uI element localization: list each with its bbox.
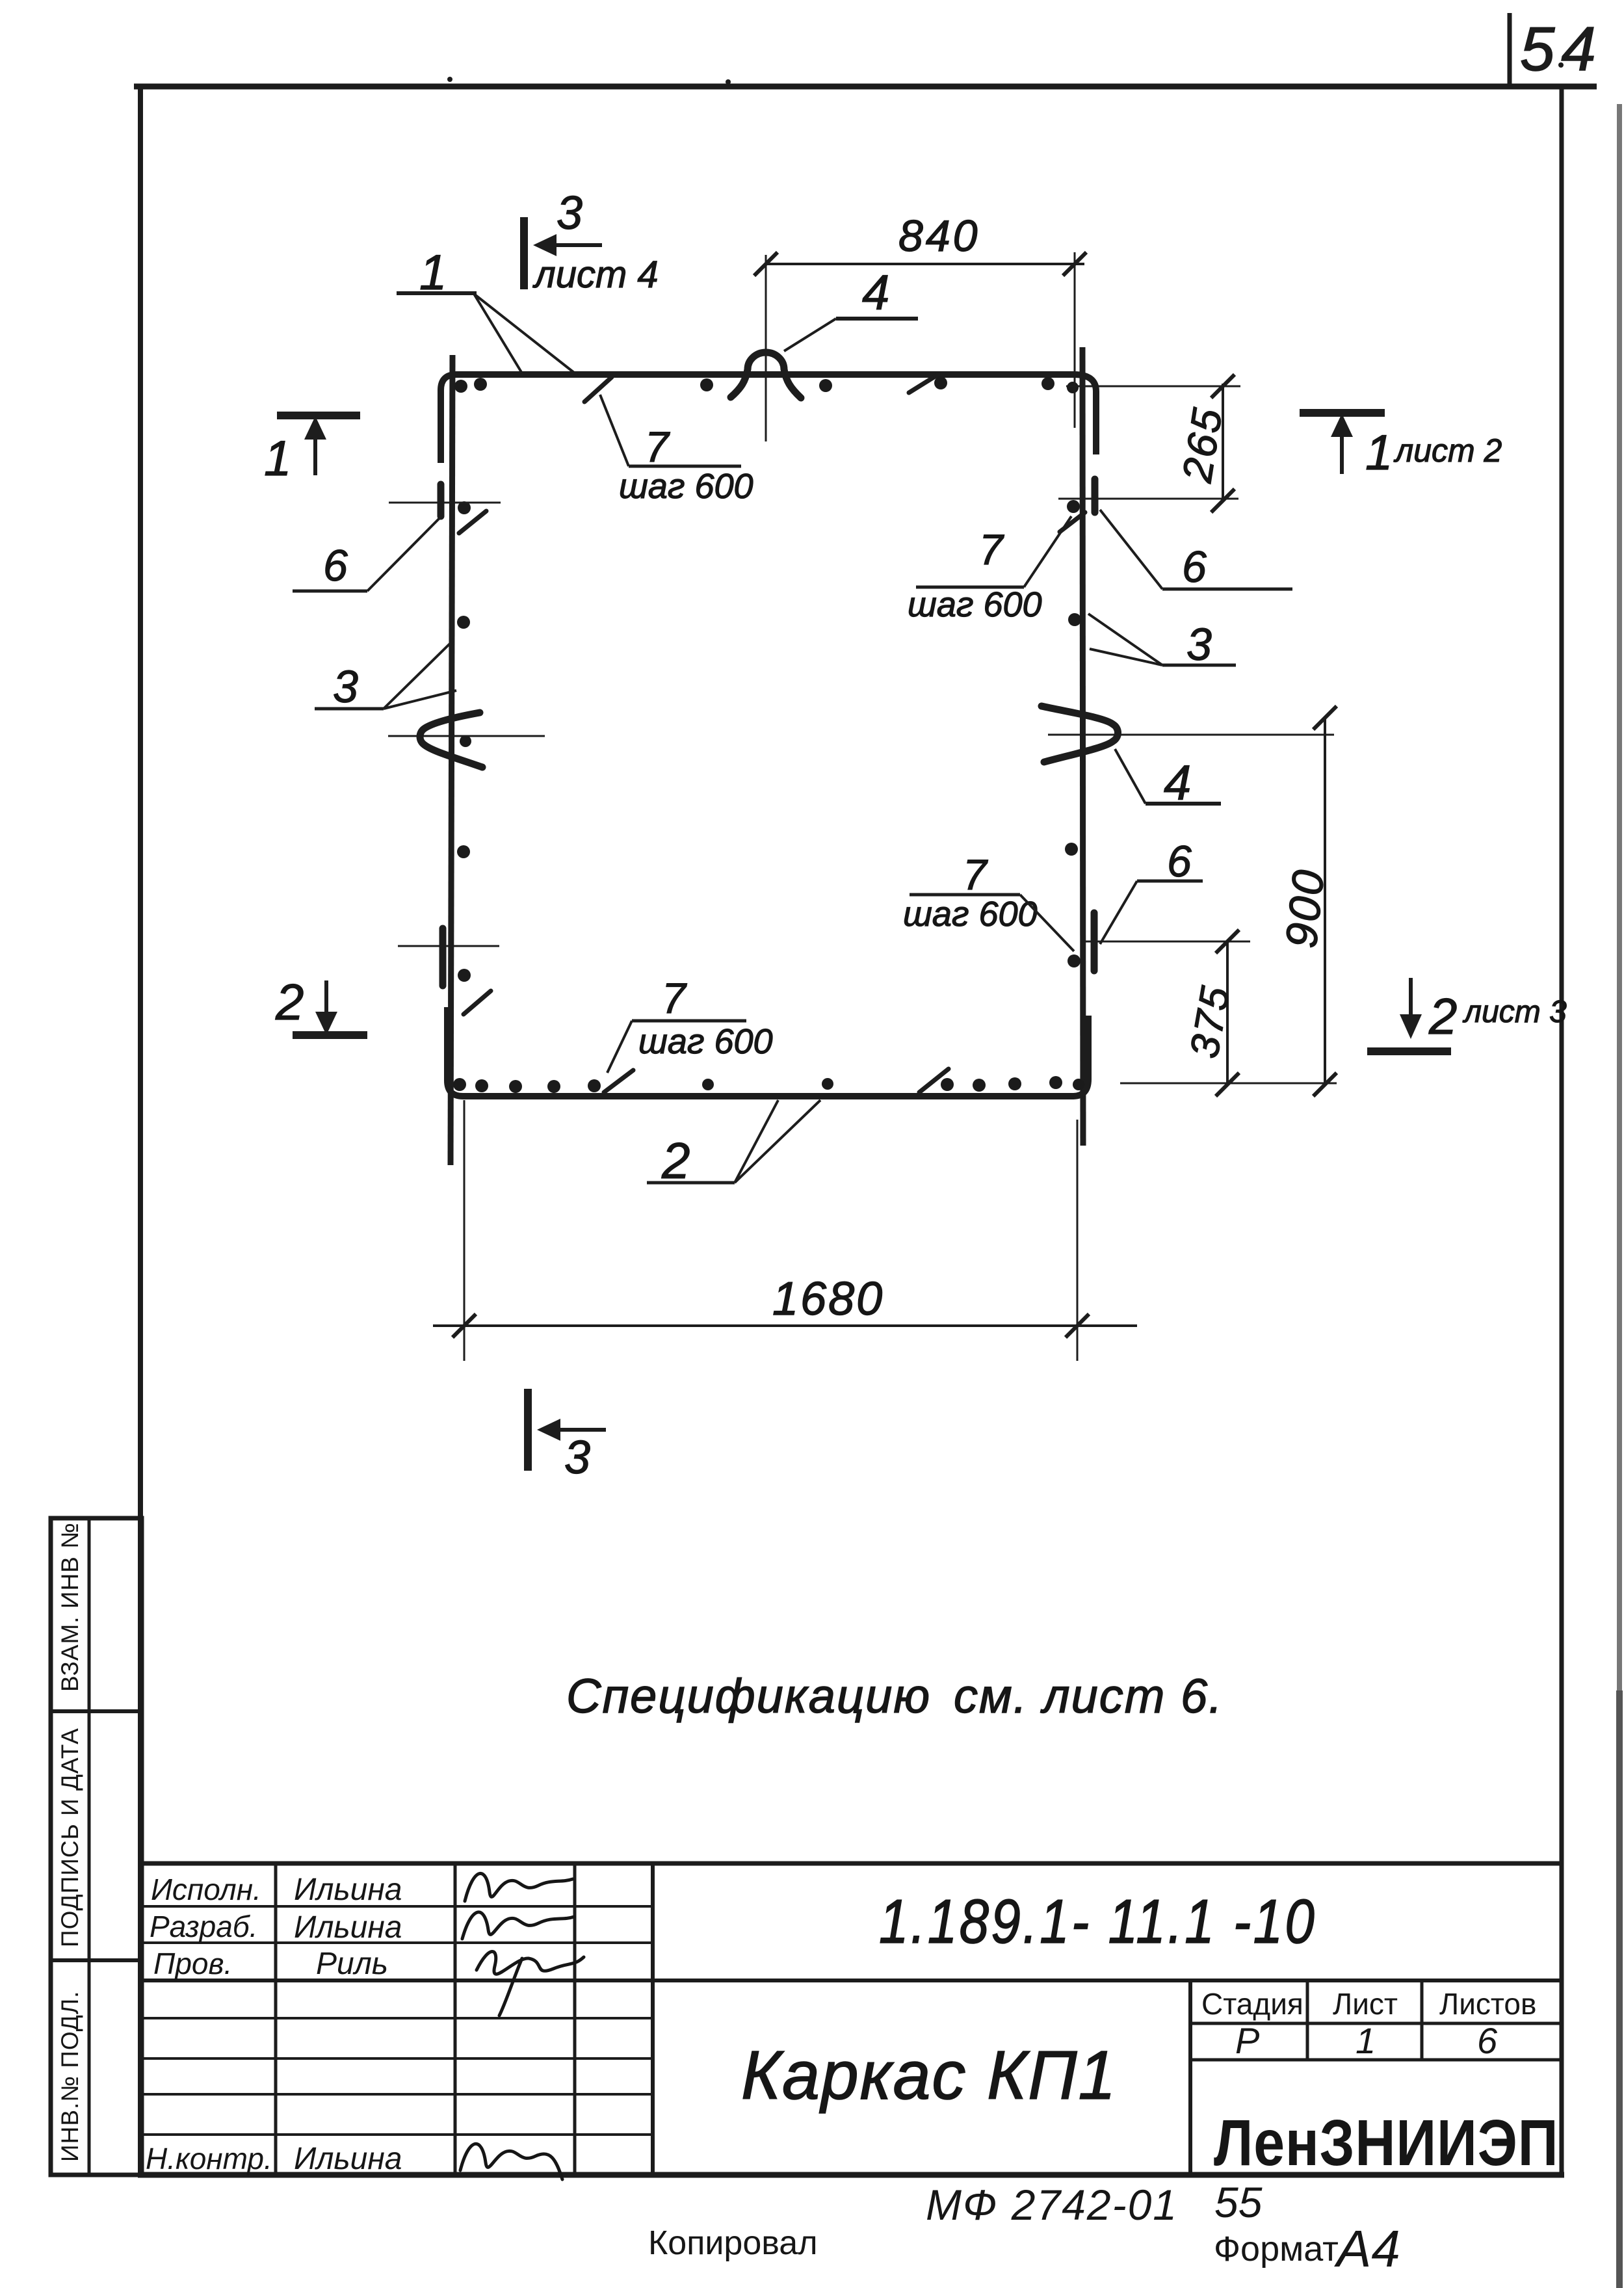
- svg-text:3: 3: [564, 1432, 590, 1484]
- svg-text:1680: 1680: [772, 1273, 884, 1325]
- svg-text:лист 4: лист 4: [532, 254, 659, 296]
- svg-text:1: 1: [1365, 425, 1393, 480]
- section marker 3 top (лист 4): [524, 187, 659, 296]
- svg-text:1: 1: [1356, 2020, 1376, 2061]
- scan edge band right lower darker: [1616, 1690, 1623, 2288]
- svg-text:55: 55: [1214, 2178, 1263, 2226]
- centerline top loop: [765, 255, 767, 441]
- svg-text:ИНВ.№ ПОДЛ.: ИНВ.№ ПОДЛ.: [57, 1991, 83, 2162]
- signature table row line 4: [140, 2057, 653, 2060]
- centerline left loop: [388, 735, 545, 737]
- svg-text:см. лист 6.: см. лист 6.: [954, 1669, 1224, 1723]
- stadia table left edge: [1188, 1980, 1192, 2175]
- signature table col divider 1: [274, 1863, 278, 2175]
- item label 6 right lower with leader: [1100, 837, 1203, 944]
- titleblock middle line: [140, 1979, 1562, 1982]
- stub axis line left upper: [389, 502, 501, 504]
- item label 3 left with leaders: [315, 640, 456, 712]
- svg-text:2: 2: [275, 973, 304, 1031]
- cross wire dots on bottom bar: [453, 1078, 466, 1091]
- section marker 3 bottom: [528, 1389, 606, 1484]
- svg-text:ЛенЗНИИЭП: ЛенЗНИИЭП: [1214, 2107, 1558, 2179]
- signature table row line 1: [140, 1905, 653, 1908]
- svg-text:Стадия: Стадия: [1201, 1987, 1303, 2021]
- svg-text:6: 6: [323, 541, 348, 590]
- item label 7 шаг 600 right lower with leader: [903, 850, 1074, 951]
- svg-text:А4: А4: [1334, 2220, 1400, 2278]
- item label 4 right with leader: [1115, 749, 1221, 811]
- dimension 840: [754, 252, 1086, 428]
- svg-text:Риль: Риль: [316, 1947, 388, 1981]
- svg-text:ПОДПИСЬ И ДАТА: ПОДПИСЬ И ДАТА: [57, 1728, 83, 1947]
- signature table row line 3: [140, 2017, 653, 2019]
- svg-text:2: 2: [1428, 988, 1457, 1045]
- svg-text:ВЗАМ. ИНВ №: ВЗАМ. ИНВ №: [57, 1522, 83, 1692]
- centerline right loop: [1048, 734, 1334, 736]
- svg-text:Спецификацию: Спецификацию: [566, 1669, 931, 1723]
- svg-text:лист 3: лист 3: [1462, 995, 1567, 1029]
- svg-text:6: 6: [1182, 542, 1207, 592]
- sheet border right: [1560, 84, 1564, 2177]
- stub axis line left lower: [398, 945, 499, 947]
- item label 7 шаг 600 bottom with leader: [607, 974, 773, 1073]
- spacer stub left lower: [439, 928, 447, 986]
- spacer stub left upper: [438, 484, 445, 516]
- item label 3 right with leaders: [1088, 614, 1236, 670]
- item label 7 шаг 600 top with leader: [600, 395, 753, 506]
- svg-text:Каркас КП1: Каркас КП1: [741, 2037, 1117, 2114]
- cross wire dots on left bar: [458, 501, 471, 514]
- sheet border top: [134, 84, 1597, 90]
- cross wire dots on right bar: [1067, 500, 1080, 513]
- svg-text:4: 4: [862, 265, 889, 321]
- weld slash on top bar left: [584, 377, 612, 402]
- svg-text:Разраб.: Разраб.: [150, 1910, 257, 1943]
- sheet border left: [138, 84, 143, 2177]
- svg-text:Ильина: Ильина: [294, 2142, 402, 2176]
- signature table col divider 2: [454, 1863, 457, 2175]
- item label 4 top with leader: [784, 265, 918, 351]
- svg-text:900: 900: [1276, 866, 1333, 951]
- spacer stub right lower: [1091, 913, 1098, 971]
- item label 2 bottom with leaders: [647, 1100, 820, 1189]
- item label 6 left with leader: [293, 518, 439, 591]
- svg-text:Лист: Лист: [1333, 1987, 1398, 2021]
- svg-text:6: 6: [1167, 837, 1192, 886]
- page number divider tick: [1508, 13, 1512, 85]
- signature table col divider 3: [573, 1863, 577, 2175]
- section marker 1 left: [264, 415, 360, 486]
- signature row 1: [465, 1873, 573, 1901]
- speck on top border: [447, 77, 452, 82]
- svg-text:7: 7: [662, 974, 687, 1022]
- svg-text:2: 2: [661, 1132, 690, 1189]
- svg-text:Листов: Листов: [1439, 1987, 1536, 2021]
- stadia table value underline: [1190, 2058, 1562, 2062]
- svg-text:шаг 600: шаг 600: [619, 467, 753, 506]
- section marker 2 right (лист 3): [1367, 978, 1567, 1051]
- svg-text:375: 375: [1182, 982, 1238, 1062]
- speck on top border: [726, 79, 731, 85]
- svg-text:шаг 600: шаг 600: [908, 585, 1042, 624]
- titleblock top line: [140, 1861, 1562, 1866]
- stadia table header underline: [1190, 2022, 1562, 2025]
- svg-text:Исполн.: Исполн.: [151, 1873, 261, 1906]
- svg-text:6: 6: [1477, 2020, 1498, 2061]
- svg-text:Ильина: Ильина: [294, 1910, 402, 1945]
- svg-text:шаг 600: шаг 600: [903, 895, 1038, 934]
- weld slash on right bar upper: [1060, 512, 1085, 532]
- dimension 1680: [433, 1100, 1137, 1361]
- svg-text:54: 54: [1520, 14, 1603, 84]
- sheet border bottom: [138, 2172, 1564, 2178]
- weld slash on left bar upper: [459, 511, 486, 533]
- signature table row line 5: [140, 2093, 653, 2096]
- svg-text:МФ 2742-01: МФ 2742-01: [926, 2181, 1178, 2229]
- dimension 375: [1082, 930, 1250, 1096]
- item label 1 with leaders: [397, 245, 577, 375]
- lifting loop left: [420, 713, 482, 767]
- bottom bar rebar with up hooks: [447, 1007, 1088, 1096]
- signature table right edge: [651, 1863, 655, 2175]
- svg-text:3: 3: [1186, 619, 1212, 670]
- section marker 2 left: [275, 973, 367, 1035]
- stadia table col divider 1: [1306, 1980, 1309, 2060]
- svg-text:Н.контр.: Н.контр.: [146, 2142, 272, 2176]
- dimension 900: [1313, 706, 1337, 1096]
- left stamp outer box: [51, 1518, 142, 2175]
- svg-text:Копировал: Копировал: [648, 2224, 818, 2262]
- item label 6 right upper with leader: [1100, 510, 1292, 592]
- left vertical bar: [451, 355, 452, 1165]
- lifting loop top: [731, 352, 801, 398]
- svg-text:шаг 600: шаг 600: [638, 1022, 773, 1061]
- spacer stub right upper: [1092, 479, 1099, 512]
- right vertical bar: [1082, 347, 1083, 1146]
- svg-text:3: 3: [557, 187, 583, 239]
- top bar rebar with down hooks: [441, 375, 1096, 463]
- svg-text:840: 840: [898, 211, 980, 261]
- svg-text:7: 7: [979, 525, 1004, 573]
- svg-text:Ильина: Ильина: [294, 1873, 402, 1907]
- svg-text:лист 2: лист 2: [1393, 432, 1502, 469]
- weld slash on bottom bar right: [919, 1069, 949, 1092]
- section marker 1 right (лист 2): [1300, 413, 1502, 480]
- lifting loop right: [1041, 706, 1118, 762]
- svg-text:Р: Р: [1235, 2020, 1259, 2061]
- cross wire dots on top bar: [454, 380, 467, 393]
- left stamp divider 1: [51, 1709, 142, 1713]
- signature row 3: [477, 1952, 584, 2016]
- signature row 2: [462, 1912, 574, 1939]
- signature table row line 6: [140, 2133, 653, 2136]
- svg-text:1: 1: [264, 431, 291, 486]
- svg-text:Формат: Формат: [1214, 2229, 1339, 2268]
- stadia table col divider 2: [1421, 1980, 1424, 2060]
- dimension 265: [1058, 375, 1240, 512]
- svg-text:7: 7: [645, 423, 670, 471]
- svg-text:3: 3: [333, 661, 358, 712]
- weld slash on left bar lower: [464, 991, 491, 1014]
- weld slash on top bar right: [909, 375, 938, 393]
- scan edge band right: [1617, 104, 1622, 2288]
- svg-text:1.189.1- 11.1 -10: 1.189.1- 11.1 -10: [879, 1886, 1316, 1956]
- left stamp column divider: [88, 1518, 91, 2175]
- signature row 8: [460, 2144, 562, 2179]
- svg-text:Пров.: Пров.: [153, 1947, 232, 1980]
- signature table row line 2: [140, 1941, 653, 1944]
- item label 7 шаг 600 right upper with leader: [908, 516, 1071, 624]
- left stamp divider 2: [51, 1958, 142, 1962]
- bottom reference extension line: [1120, 1083, 1337, 1085]
- svg-text:7: 7: [963, 850, 988, 899]
- weld slash on bottom bar left: [604, 1070, 633, 1092]
